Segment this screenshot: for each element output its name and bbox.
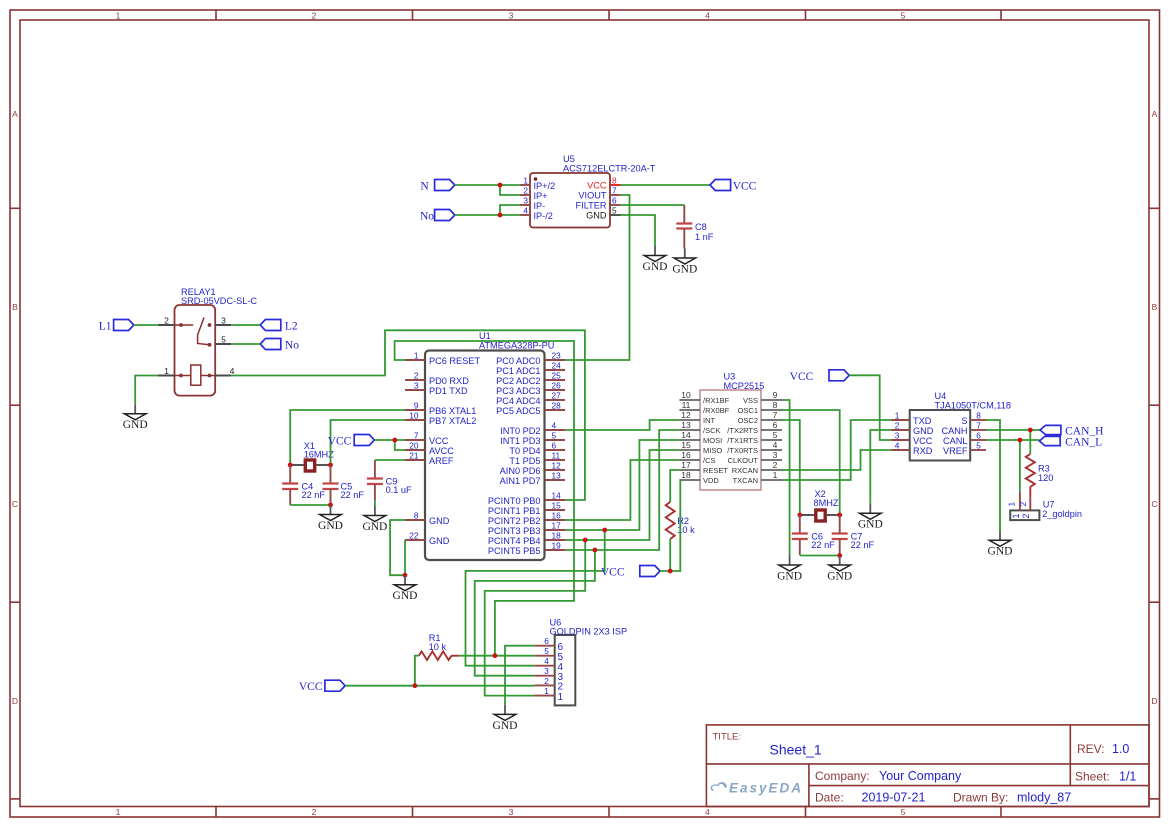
- U1 pin 19 PCINT5 PB5: [488, 541, 565, 556]
- wire PB2 to U3 /CS: [565, 460, 679, 520]
- svg-text:2: 2: [895, 421, 900, 431]
- svg-text:4: 4: [523, 206, 528, 216]
- svg-text:1: 1: [414, 351, 419, 361]
- svg-text:CLKOUT: CLKOUT: [728, 456, 759, 465]
- ground (U4 pin2): [858, 504, 883, 531]
- svg-text:22 nF: 22 nF: [341, 490, 365, 500]
- crystal X2 8MHZ: [800, 489, 840, 521]
- svg-text:Sheet_1: Sheet_1: [770, 742, 822, 758]
- svg-text:REV:: REV:: [1077, 742, 1105, 756]
- svg-text:IP+/2: IP+/2: [534, 181, 556, 191]
- svg-text:GND: GND: [586, 210, 607, 220]
- svg-text:10: 10: [681, 390, 691, 400]
- svg-text:9: 9: [773, 390, 778, 400]
- svg-text:6: 6: [976, 431, 981, 441]
- relay pin 1: [158, 366, 175, 376]
- net flag VCC: [710, 180, 757, 193]
- wire relay pin4 over U1 to PB0: [231, 330, 585, 500]
- svg-text:mlody_87: mlody_87: [1017, 791, 1071, 805]
- junction: [413, 683, 418, 688]
- svg-text:VSS: VSS: [743, 396, 758, 405]
- wire relay pin1 to ground: [135, 376, 158, 405]
- svg-text:/RX0BF: /RX0BF: [703, 406, 730, 415]
- wire U4 pin8 S to ground: [986, 420, 1000, 531]
- svg-text:OSC2: OSC2: [738, 416, 758, 425]
- svg-text:FILTER: FILTER: [576, 200, 607, 210]
- net flag No: [420, 210, 455, 223]
- junction: [493, 653, 498, 658]
- wire OSC2 to X2: [782, 420, 800, 515]
- wire CANH junction to R3: [1029, 430, 1031, 454]
- resistor R2 10 k: [666, 502, 695, 539]
- svg-text:19: 19: [552, 541, 562, 551]
- wire branch to pin3: [500, 205, 520, 215]
- svg-text:3: 3: [509, 11, 514, 21]
- U3 pin 7 OSC2: [738, 410, 782, 425]
- svg-text:14: 14: [552, 491, 562, 501]
- wire AREF to C9: [375, 459, 405, 461]
- resistor R3 120: [1026, 454, 1054, 497]
- svg-text:VCC: VCC: [299, 681, 323, 693]
- svg-text:No: No: [420, 211, 434, 223]
- U1 pin 12 AIN0 PD6: [500, 461, 565, 476]
- svg-text:/TX2RTS: /TX2RTS: [727, 426, 758, 435]
- connector U6 GOLDPIN 2X3 ISP body: [550, 618, 628, 706]
- U6 pin 3: [535, 666, 564, 683]
- U1 pin 16 PCINT2 PB2: [488, 511, 565, 526]
- svg-text:1: 1: [523, 176, 528, 186]
- svg-text:11: 11: [682, 400, 691, 410]
- junction: [498, 213, 503, 218]
- ground (relay): [123, 404, 148, 431]
- svg-text:2: 2: [312, 11, 317, 21]
- svg-text:C: C: [1151, 499, 1157, 509]
- junction: [1028, 428, 1033, 433]
- svg-text:PD0 RXD: PD0 RXD: [429, 376, 469, 386]
- svg-text:27: 27: [552, 391, 562, 401]
- junction: [392, 438, 397, 443]
- wire C6 to C7 bottom: [800, 555, 840, 557]
- svg-text:2: 2: [544, 676, 549, 686]
- svg-text:28: 28: [552, 401, 562, 411]
- svg-text:CAN_L: CAN_L: [1065, 437, 1102, 449]
- svg-text:3: 3: [414, 381, 419, 391]
- U3 pin 10 /RX1BF: [679, 390, 729, 405]
- wire branch to AVCC: [395, 440, 405, 450]
- junction: [583, 538, 588, 543]
- svg-text:RXD: RXD: [913, 446, 933, 456]
- svg-text:5: 5: [901, 11, 906, 21]
- svg-text:D: D: [1151, 696, 1157, 706]
- svg-text:4: 4: [705, 807, 710, 817]
- net flag CAN_L: [1039, 436, 1102, 448]
- net flag VCC (R2): [601, 566, 660, 579]
- svg-text:16: 16: [681, 450, 691, 460]
- svg-text:TXD: TXD: [913, 416, 932, 426]
- svg-text:CANL: CANL: [943, 436, 968, 446]
- wire U4 CANH to CAN_H: [986, 429, 1040, 431]
- svg-text:AIN0 PD6: AIN0 PD6: [500, 466, 541, 476]
- U1 pin 18 PCINT4 PB4: [488, 531, 565, 546]
- svg-text:6: 6: [552, 441, 557, 451]
- wire MISO branch to ISP pin1: [485, 540, 586, 696]
- svg-text:R3: R3: [1038, 464, 1050, 474]
- svg-text:PCINT4 PB4: PCINT4 PB4: [488, 536, 541, 546]
- U4 pin 4 RXD: [891, 441, 933, 456]
- U4 pin 8 S: [961, 411, 986, 426]
- svg-text:INT0 PD2: INT0 PD2: [500, 426, 540, 436]
- wire U5 pin8 to VCC: [621, 184, 711, 186]
- svg-text:4: 4: [544, 656, 549, 666]
- U6 pin 6: [535, 636, 564, 653]
- ground (U6): [493, 705, 518, 732]
- svg-text:GND: GND: [429, 516, 450, 526]
- svg-text:3: 3: [544, 666, 549, 676]
- svg-text:9: 9: [414, 401, 419, 411]
- svg-text:L1: L1: [99, 321, 112, 333]
- svg-text:/TX0RTS: /TX0RTS: [727, 446, 758, 455]
- junction: [797, 513, 802, 518]
- svg-text:B: B: [1152, 302, 1158, 312]
- U3 pin 13 /SCK: [679, 420, 720, 435]
- svg-text:C: C: [12, 499, 18, 509]
- svg-text:2: 2: [523, 186, 528, 196]
- U1 pin 14 PCINT0 PB0: [488, 491, 565, 506]
- svg-text:Sheet:: Sheet:: [1075, 770, 1110, 784]
- svg-text:17: 17: [552, 521, 562, 531]
- capacitor C5: [323, 465, 365, 505]
- wire U3 VSS to ground: [782, 400, 790, 556]
- U1 pin 27 PC4 ADC4: [496, 391, 565, 406]
- svg-text:5: 5: [221, 335, 226, 345]
- svg-text:INT: INT: [703, 416, 716, 425]
- junction: [403, 573, 408, 578]
- U6 pin 4: [535, 656, 564, 673]
- svg-text:TJA1050T/CM,118: TJA1050T/CM,118: [935, 401, 1011, 411]
- U3 pin 18 VDD: [679, 470, 719, 485]
- svg-text:VDD: VDD: [703, 476, 719, 485]
- IC U5 ACS712 body: [530, 154, 656, 228]
- U1 pin 3 PD1 TXD: [405, 381, 468, 396]
- svg-text:1: 1: [895, 411, 900, 421]
- U1 pin 24 PC1 ADC1: [496, 361, 565, 376]
- svg-text:U4: U4: [935, 391, 947, 401]
- crystal X1 16MHZ: [290, 441, 334, 471]
- svg-text:12: 12: [552, 461, 562, 471]
- svg-text:/TX1RTS: /TX1RTS: [727, 436, 758, 445]
- svg-text:1: 1: [164, 366, 169, 376]
- U5 pin 1 IP+/2: [520, 176, 556, 191]
- svg-text:2: 2: [773, 460, 778, 470]
- relay pin 5: [215, 335, 231, 345]
- svg-text:PC4 ADC4: PC4 ADC4: [496, 396, 540, 406]
- U5 pin 2 IP+: [520, 186, 548, 201]
- svg-text:GND: GND: [643, 261, 668, 273]
- svg-text:4: 4: [773, 440, 778, 450]
- svg-text:TITLE:: TITLE:: [713, 732, 742, 743]
- wire VCC to U6 pin2: [345, 685, 534, 687]
- svg-text:Your Company: Your Company: [879, 769, 962, 783]
- svg-text:PCINT0 PB0: PCINT0 PB0: [488, 496, 541, 506]
- svg-text:5: 5: [552, 431, 557, 441]
- svg-text:AVCC: AVCC: [429, 446, 454, 456]
- U1 pin 9 PB6 XTAL1: [405, 401, 476, 416]
- U3 pin 2 RXCAN: [732, 460, 782, 475]
- svg-text:B: B: [12, 302, 18, 312]
- net flag L1: [99, 320, 134, 333]
- svg-text:PCINT5 PB5: PCINT5 PB5: [488, 546, 541, 556]
- U5 pin 7 VIOUT: [578, 186, 620, 201]
- U4 pin 6 CANL: [943, 431, 986, 446]
- svg-text:2: 2: [1021, 513, 1031, 518]
- U1 pin 28 PC5 ADC5: [496, 401, 565, 416]
- svg-text:1: 1: [773, 470, 778, 480]
- connector U7 2_goldpin body: [1010, 500, 1082, 521]
- svg-text:GND: GND: [672, 263, 697, 275]
- svg-text:7: 7: [612, 186, 617, 196]
- U1 pin 22 GND: [405, 531, 450, 546]
- ground (C4 C5): [318, 505, 343, 532]
- wire relay pin5 to No: [231, 343, 260, 345]
- svg-text:1/1: 1/1: [1119, 770, 1136, 784]
- svg-text:1: 1: [1011, 513, 1021, 518]
- wire U1 GND pin22: [404, 540, 406, 575]
- svg-text:MOSI: MOSI: [703, 436, 722, 445]
- U6 pin 2: [535, 676, 564, 693]
- svg-text:6: 6: [544, 636, 549, 646]
- svg-text:17: 17: [681, 460, 691, 470]
- svg-text:PB6 XTAL1: PB6 XTAL1: [429, 406, 476, 416]
- svg-text:SRD-05VDC-SL-C: SRD-05VDC-SL-C: [181, 296, 257, 306]
- net flag VCC (U3): [790, 370, 850, 383]
- svg-text:GND: GND: [777, 570, 802, 582]
- wire MOSI branch to ISP pin4: [466, 530, 605, 666]
- svg-text:2: 2: [164, 316, 169, 326]
- svg-text:6: 6: [612, 196, 617, 206]
- svg-text:/RX1BF: /RX1BF: [703, 396, 730, 405]
- svg-text:PC0 ADC0: PC0 ADC0: [496, 356, 540, 366]
- svg-text:3: 3: [509, 807, 514, 817]
- svg-text:13: 13: [681, 420, 691, 430]
- U5 pin 3 IP-: [520, 196, 546, 211]
- svg-text:GND: GND: [318, 520, 343, 532]
- svg-text:PC5 ADC5: PC5 ADC5: [496, 406, 540, 416]
- svg-text:15: 15: [552, 501, 562, 511]
- wire FILTER to C8: [621, 204, 685, 206]
- svg-text:7: 7: [414, 431, 419, 441]
- svg-text:VCC: VCC: [601, 566, 625, 578]
- U3 pin 1 TXCAN: [733, 470, 782, 485]
- U1 pin 21 AREF: [405, 451, 454, 466]
- svg-text:16: 16: [552, 511, 562, 521]
- net flag CAN_H: [1040, 425, 1103, 437]
- wire U3 TXCAN to U4 TXD: [782, 420, 891, 480]
- svg-text:A: A: [1152, 109, 1158, 119]
- U3 pin 5 /TX1RTS: [727, 430, 782, 445]
- U5 pin 4 IP-/2: [520, 206, 553, 221]
- svg-text:GND: GND: [493, 720, 518, 732]
- U4 pin 1 TXD: [891, 411, 932, 426]
- ground (U4 pin8): [988, 531, 1013, 558]
- svg-text:4: 4: [552, 421, 557, 431]
- svg-text:3: 3: [221, 316, 226, 326]
- wire U3 RESET to R2: [670, 470, 679, 502]
- svg-text:23: 23: [552, 351, 562, 361]
- U3 pin 16 /CS: [679, 450, 715, 465]
- junction: [1018, 438, 1023, 443]
- U4 pin 7 CANH: [941, 421, 986, 436]
- svg-text:8: 8: [612, 176, 617, 186]
- svg-text:VCC: VCC: [733, 181, 757, 193]
- svg-text:25: 25: [552, 371, 562, 381]
- wire XTAL2 to X1: [331, 420, 406, 465]
- IC U1 ATMEGA328P-PU body: [425, 331, 554, 560]
- U3 pin 4 /TX0RTS: [727, 440, 782, 455]
- svg-text:Company:: Company:: [815, 769, 870, 783]
- svg-text:PCINT1 PB1: PCINT1 PB1: [488, 506, 541, 516]
- wire N to U5 pin1: [455, 184, 520, 186]
- svg-text:VREF: VREF: [943, 446, 968, 456]
- svg-text:IP-/2: IP-/2: [534, 211, 553, 221]
- relay RELAY1 body: [175, 287, 258, 396]
- svg-text:VCC: VCC: [328, 436, 352, 448]
- U7 pin 2: [1018, 497, 1031, 518]
- svg-text:GND: GND: [988, 546, 1013, 558]
- svg-text:5: 5: [901, 807, 906, 817]
- capacitor C4: [282, 465, 325, 505]
- net flag N: [420, 180, 454, 193]
- net flag VCC (U1): [328, 435, 375, 448]
- svg-text:C8: C8: [695, 222, 707, 232]
- svg-text:3: 3: [523, 196, 528, 206]
- U1 pin 20 AVCC: [405, 441, 454, 456]
- svg-text:AREF: AREF: [429, 456, 454, 466]
- svg-text:VCC: VCC: [429, 436, 449, 446]
- title block frame: [706, 725, 1149, 807]
- title block texts: [713, 732, 1137, 805]
- svg-text:26: 26: [552, 381, 562, 391]
- svg-text:22: 22: [409, 531, 419, 541]
- U3 pin 3 CLKOUT: [728, 450, 782, 465]
- svg-text:GND: GND: [827, 570, 852, 582]
- U5 pin 8 VCC: [587, 176, 620, 191]
- svg-text:GOLDPIN 2X3 ISP: GOLDPIN 2X3 ISP: [550, 627, 628, 637]
- svg-text:1.0: 1.0: [1112, 742, 1129, 756]
- junction: [498, 183, 503, 188]
- wire OSC1 to X2: [782, 410, 840, 515]
- svg-text:120: 120: [1038, 473, 1053, 483]
- U1 pin 6 T0 PD4: [509, 441, 565, 456]
- U3 pin 6 /TX2RTS: [727, 420, 782, 435]
- U7 pin 1: [1007, 492, 1021, 519]
- capacitor C9: [367, 460, 412, 500]
- capacitor C7: [832, 515, 875, 555]
- svg-text:2_goldpin: 2_goldpin: [1042, 509, 1082, 519]
- capacitor C6: [792, 515, 835, 555]
- svg-text:22 nF: 22 nF: [851, 540, 875, 550]
- U6 pin 1: [535, 686, 564, 703]
- ground (U5 pin5): [643, 246, 668, 273]
- svg-text:CANH: CANH: [941, 426, 967, 436]
- svg-text:MISO: MISO: [703, 446, 722, 455]
- U4 pin 3 VCC: [891, 431, 933, 446]
- U1 pin 5 INT1 PD3: [500, 431, 565, 446]
- svg-text:22 nF: 22 nF: [302, 490, 326, 500]
- wire L1 to relay pin2: [134, 324, 158, 326]
- svg-text:2: 2: [1018, 502, 1028, 507]
- svg-text:22 nF: 22 nF: [811, 540, 835, 550]
- svg-text:U5: U5: [563, 154, 575, 164]
- svg-text:TXCAN: TXCAN: [733, 476, 758, 485]
- wire R1 to U6 pin5: [459, 655, 534, 657]
- wire U3 RXCAN to U4 RXD: [782, 450, 891, 470]
- svg-text:GND: GND: [913, 426, 934, 436]
- svg-text:U3: U3: [724, 372, 736, 382]
- svg-text:Date:: Date:: [815, 791, 844, 805]
- ground (U3 VSS): [777, 556, 802, 583]
- svg-text:D: D: [12, 696, 18, 706]
- svg-text:1: 1: [558, 692, 564, 703]
- U1 pin 13 AIN1 PD7: [500, 471, 565, 486]
- svg-text:14: 14: [681, 430, 691, 440]
- svg-text:L2: L2: [285, 321, 298, 333]
- wire relay pin3 to L2: [231, 324, 260, 326]
- svg-text:MCP2515: MCP2515: [724, 381, 765, 391]
- junction: [593, 548, 598, 553]
- svg-text:RXCAN: RXCAN: [732, 466, 758, 475]
- svg-text:VCC: VCC: [790, 371, 814, 383]
- U1 pin 26 PC3 ADC3: [496, 381, 565, 396]
- svg-text:13: 13: [552, 471, 562, 481]
- U1 pin 7 VCC: [405, 431, 449, 446]
- U3 pin 12 INT: [679, 410, 715, 425]
- svg-text:OSC1: OSC1: [738, 406, 758, 415]
- U4 pin 2 GND: [891, 421, 934, 436]
- wire INT0 PD2 to U3 INT: [565, 420, 679, 430]
- wire C4 to C5 bottom: [290, 504, 330, 506]
- svg-text:3: 3: [895, 431, 900, 441]
- svg-text:4: 4: [895, 441, 900, 451]
- svg-text:VCC: VCC: [913, 436, 933, 446]
- U3 pin 8 OSC1: [738, 400, 782, 415]
- ground (C6 C7): [827, 556, 852, 583]
- svg-text:ATMEGA328P-PU: ATMEGA328P-PU: [479, 341, 554, 351]
- svg-text:2: 2: [312, 807, 317, 817]
- svg-text:18: 18: [552, 531, 562, 541]
- U4 pin 5 VREF: [943, 441, 986, 456]
- svg-text:GND: GND: [123, 419, 148, 431]
- wire U5 GND pin5: [621, 215, 656, 246]
- wire VIOUT down to PC0 ADC0: [565, 195, 630, 360]
- svg-text:10: 10: [409, 411, 419, 421]
- wire U4 GND to ground: [870, 430, 891, 504]
- wire PB5 to U3 /SCK: [565, 430, 679, 550]
- svg-text:4: 4: [705, 11, 710, 21]
- svg-text:PCINT3 PB3: PCINT3 PB3: [488, 526, 541, 536]
- U1 pin 1 PC6 RESET: [405, 351, 480, 366]
- capacitor C8: [676, 205, 713, 249]
- wire R1 left to VCC row: [415, 656, 419, 686]
- svg-text:0.1 uF: 0.1 uF: [386, 485, 412, 495]
- svg-text:PCINT2 PB2: PCINT2 PB2: [488, 516, 541, 526]
- U3 pin 9 VSS: [743, 390, 782, 405]
- junction: [837, 513, 842, 518]
- svg-text:1 nF: 1 nF: [695, 232, 714, 242]
- junction: [837, 553, 842, 558]
- wire SCK branch to ISP pin3: [475, 550, 595, 676]
- svg-text:GND: GND: [429, 536, 450, 546]
- svg-text:21: 21: [409, 451, 419, 461]
